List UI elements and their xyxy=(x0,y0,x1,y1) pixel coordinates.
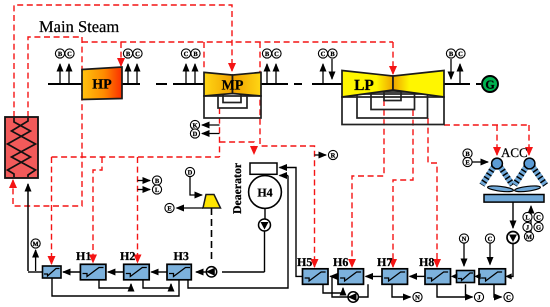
ACC condensate duct xyxy=(484,195,544,203)
wire: ACC right riser xyxy=(528,125,530,155)
svg-text:HP: HP xyxy=(92,78,112,93)
wire: branch to H1 xyxy=(93,157,102,263)
pump BFP xyxy=(206,267,217,277)
wire: MP casing extraction to deaerator and LP heater header xyxy=(219,108,221,157)
boiler xyxy=(5,117,38,178)
wire: feedwater into boiler bottom xyxy=(27,184,29,271)
MP casing with nested compartments xyxy=(204,93,261,118)
wire: feedwater H3 to H2 xyxy=(151,271,167,273)
heater H1 xyxy=(76,249,106,280)
wire: BFPT shaft to feed pump xyxy=(211,208,213,262)
ACC steam headers xyxy=(492,158,503,169)
wire: H5 drain to H6 xyxy=(323,284,343,293)
node E ACC xyxy=(463,157,488,166)
svg-text:C: C xyxy=(135,51,140,58)
gland steam pair B C left of HP xyxy=(55,49,74,84)
svg-text:LP: LP xyxy=(354,77,374,94)
wire: top steam header y42 xyxy=(82,41,393,43)
svg-text:C: C xyxy=(536,215,541,222)
gland steam pair C B left of MP xyxy=(181,49,200,84)
ACC fans xyxy=(487,185,540,193)
svg-text:C: C xyxy=(321,51,326,58)
heater H5 xyxy=(297,255,328,284)
wire: feedwater H2 to H1 xyxy=(108,271,124,273)
svg-text:L: L xyxy=(155,187,160,194)
pump below H4 xyxy=(259,208,271,272)
heater H6 xyxy=(333,255,364,284)
node N bottom xyxy=(413,292,422,301)
wire: H2 drain forward to H3 xyxy=(143,280,171,288)
node E: BFPT exhaust xyxy=(165,203,203,212)
svg-text:C: C xyxy=(184,51,189,58)
gland steam pair C B left of LP xyxy=(318,49,337,84)
deaerator head tank xyxy=(250,163,277,174)
wire: feedwater drain cooler to boiler riser xyxy=(28,271,43,273)
node L return xyxy=(523,212,532,221)
svg-text:C: C xyxy=(274,51,279,58)
deaerator H4 xyxy=(249,176,282,209)
wire: gsc drain to C xyxy=(494,284,502,297)
wire: H3 drain to deaerator riser xyxy=(188,176,288,289)
svg-text:B: B xyxy=(58,51,63,58)
turbine HP xyxy=(82,67,122,100)
node D: BFPT steam supply xyxy=(185,167,202,195)
node M: feedwater sample xyxy=(31,239,40,271)
heater drain cooler small right xyxy=(457,271,475,283)
svg-text:E: E xyxy=(167,206,171,213)
svg-text:C: C xyxy=(458,51,463,58)
wire: condensate gsc to cooler xyxy=(474,273,481,279)
svg-text:D: D xyxy=(188,170,193,177)
svg-text:Main Steam: Main Steam xyxy=(39,17,119,36)
wire: H4 discharge to feed pump xyxy=(222,271,265,273)
wire: BFP discharge into H3 xyxy=(196,271,206,273)
wire: feedwater H1 to drain cooler xyxy=(63,271,80,273)
svg-text:B: B xyxy=(155,178,160,185)
wire: ACC condensate down to gsc xyxy=(511,244,513,276)
svg-text:C: C xyxy=(506,295,511,302)
wire: H6 drain to drain pump xyxy=(358,284,368,297)
svg-text:G: G xyxy=(536,225,541,232)
svg-text:G: G xyxy=(485,78,494,92)
wire: H7 drain to N xyxy=(392,284,411,297)
svg-text:C: C xyxy=(488,236,493,243)
svg-text:H8: H8 xyxy=(419,255,434,269)
LP casing with nested compartments xyxy=(342,90,444,125)
heater H7 xyxy=(377,255,408,284)
node C return xyxy=(534,212,543,221)
svg-text:L: L xyxy=(525,215,530,222)
wire: LP casing extraction to H6 xyxy=(352,100,384,267)
svg-text:H6: H6 xyxy=(333,255,348,269)
node K: MP extraction tap xyxy=(190,120,219,129)
node L: H2 line tap xyxy=(138,185,162,194)
wire: deaerator inlet lower from H3 drains xyxy=(280,175,289,177)
wire: cold reheat down HP side to boiler bottom xyxy=(13,37,82,206)
wire: branch to drain cooler box xyxy=(51,157,53,264)
turbine LP xyxy=(342,71,444,98)
wire: drain pump discharge to condensate line xyxy=(332,276,348,297)
wire: condensate H5 to deaerator xyxy=(280,168,303,277)
svg-text:B: B xyxy=(126,51,131,58)
wire: LP casing extraction to H7 xyxy=(393,110,413,267)
node R: extraction tap to R xyxy=(315,150,338,159)
wire: HP inlet branch xyxy=(120,42,122,66)
wire: LP exhaust to ACC xyxy=(444,124,529,126)
node C above gsc xyxy=(485,234,494,265)
wire: main steam line boiler to header xyxy=(28,37,81,117)
node J return xyxy=(523,222,532,231)
svg-text:B: B xyxy=(265,51,270,58)
node D: MP extraction tap xyxy=(190,129,219,138)
svg-text:N: N xyxy=(462,236,467,243)
svg-text:N: N xyxy=(415,295,420,302)
wire: condensate cooler to H8 xyxy=(451,273,458,279)
generator G xyxy=(482,76,498,92)
wire: H8 and cooler drain to J xyxy=(437,284,473,297)
node J xyxy=(474,292,483,301)
svg-text:B: B xyxy=(330,51,335,58)
wire: returns riser into duct xyxy=(530,206,532,233)
wire: branch to H2 xyxy=(137,157,139,263)
heater H3 xyxy=(167,249,191,280)
gland steam pair B C right of HP xyxy=(123,49,142,84)
wire: duct to pump xyxy=(512,202,514,228)
node B: H2 line tap xyxy=(138,176,162,185)
wire: ACC left riser xyxy=(496,125,498,155)
node G return xyxy=(534,222,543,231)
svg-text:D: D xyxy=(193,131,198,138)
svg-text:C: C xyxy=(67,51,72,58)
svg-text:ACC: ACC xyxy=(501,145,528,160)
heater H2 xyxy=(120,249,149,280)
node M return xyxy=(524,232,533,241)
svg-text:H7: H7 xyxy=(377,255,392,269)
wire: H3 drain to drain cooler bottom line xyxy=(52,278,179,296)
wire: LP casing extraction to H8 xyxy=(428,118,437,267)
pump ACC condensate xyxy=(507,232,519,244)
svg-text:H5: H5 xyxy=(297,255,312,269)
svg-text:M: M xyxy=(33,241,39,248)
wire: LP inlet branch xyxy=(392,42,394,74)
svg-text:Deaerator: Deaerator xyxy=(230,163,244,214)
node N above cooler xyxy=(459,234,468,266)
svg-text:M: M xyxy=(526,234,532,241)
svg-text:R: R xyxy=(331,153,336,160)
wire: deaerator steam branch xyxy=(220,142,255,154)
turbine MP xyxy=(204,72,261,96)
wire: MP left extraction stub xyxy=(203,42,205,70)
svg-text:H3: H3 xyxy=(174,249,189,263)
turbine BFPT xyxy=(203,195,221,209)
wire: H1 drain forward to H2 xyxy=(99,280,131,288)
wire: MP right extraction to H5 xyxy=(260,42,315,267)
svg-text:E: E xyxy=(465,160,469,167)
gland steam pair B C right of LP xyxy=(446,49,465,84)
shaft segments xyxy=(48,83,481,85)
wire: condensate H6 to H5 xyxy=(330,275,338,277)
wire: condensate H7 to H6 xyxy=(366,275,382,277)
svg-text:B: B xyxy=(193,51,198,58)
wire: cooler drain stub xyxy=(465,284,467,297)
ACC tube bundles xyxy=(482,167,546,186)
pump drain pump H6 xyxy=(348,292,359,302)
svg-text:H1: H1 xyxy=(76,249,91,263)
wire: extraction header y157 xyxy=(52,156,220,158)
heater gland steam condenser box xyxy=(479,269,506,285)
node B ACC xyxy=(463,149,472,158)
svg-text:MP: MP xyxy=(222,79,244,94)
svg-text:H2: H2 xyxy=(120,249,135,263)
wire: condensate H8 to H7 xyxy=(410,275,425,277)
wire: hot reheat line boiler top to MP inlet xyxy=(14,5,232,117)
node C bottom right xyxy=(504,292,513,301)
heater H8 xyxy=(419,255,451,284)
heater drain cooler box (left small) xyxy=(43,266,62,278)
svg-text:B: B xyxy=(449,51,454,58)
gland steam pair B C right of MP xyxy=(262,49,281,84)
svg-text:H4: H4 xyxy=(257,186,272,200)
